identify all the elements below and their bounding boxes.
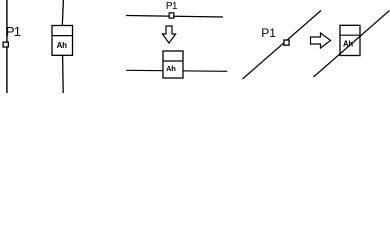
probe P1 marker (left)	[3, 42, 8, 47]
svg-text:Ah: Ah	[343, 40, 353, 49]
probe P1 marker (right)	[284, 40, 289, 45]
svg-text:P1: P1	[166, 1, 178, 12]
svg-text:P1: P1	[6, 24, 21, 39]
ammeter U1 divider	[52, 35, 73, 37]
wire W2 lower segment	[62, 55, 65, 93]
wire W6 (diagonal wire through meter, right)	[314, 11, 390, 78]
wire W4 (horizontal wire, middle bottom)	[126, 70, 227, 71]
ammeter U2 box (middle meter)	[163, 51, 183, 78]
ammeter U2 divider	[163, 60, 183, 62]
probe P1 marker (middle)	[169, 13, 174, 18]
wire W5 (diagonal wire, right)	[243, 11, 322, 80]
block arrow right	[311, 33, 331, 48]
ammeter U1 box (vertical meter, left)	[52, 26, 73, 56]
svg-text:Ah: Ah	[166, 64, 176, 73]
wire W2 upper segment	[62, 0, 63, 26]
wire W3 (horizontal wire, middle top)	[126, 16, 223, 18]
ammeter U3 divider	[340, 34, 360, 36]
ammeter U3 box (right meter)	[340, 25, 360, 55]
wire W1 (vertical wire, left sub-image)	[6, 0, 8, 93]
svg-text:Ah: Ah	[57, 41, 68, 50]
svg-text:P1: P1	[261, 26, 276, 40]
block arrow down	[162, 26, 175, 43]
